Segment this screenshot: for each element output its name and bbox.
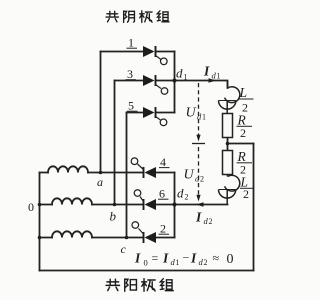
svg-text:I: I bbox=[195, 210, 202, 225]
inductor L/2 bottom bbox=[219, 175, 240, 205]
svg-text:I: I bbox=[162, 251, 169, 266]
transformer winding a bbox=[48, 166, 88, 172]
wire: thyristor 2 row bbox=[156, 237, 175, 239]
svg-text:c: c bbox=[121, 242, 127, 256]
共 bbox=[106, 11, 118, 22]
label R/2 bottom bbox=[237, 149, 253, 177]
wire: connector phase b to thyristor 3 bbox=[114, 81, 116, 205]
svg-text:4: 4 bbox=[160, 155, 166, 169]
svg-text:1: 1 bbox=[217, 72, 221, 81]
svg-text:1: 1 bbox=[176, 258, 180, 267]
node d1 bbox=[172, 78, 176, 82]
svg-text:a: a bbox=[97, 175, 103, 189]
voltage reference dashed line Ud2 bbox=[198, 147, 200, 195]
transformer winding b bbox=[52, 198, 92, 204]
node: load midpoint bbox=[226, 142, 230, 146]
svg-text:=: = bbox=[152, 251, 159, 265]
svg-text:6: 6 bbox=[159, 187, 165, 201]
label 共阳极组 (bottom) bbox=[106, 279, 173, 292]
label 5 bbox=[127, 99, 138, 113]
label 3 bbox=[126, 67, 137, 81]
组 bbox=[157, 11, 169, 22]
wire: d2 to load bbox=[175, 204, 228, 206]
wire: common-cathode bus d1 bbox=[174, 52, 176, 113]
thyristor 2 bbox=[132, 222, 156, 243]
resistor R/2 bottom bbox=[223, 151, 233, 175]
阳 bbox=[125, 279, 137, 291]
label 共阴极组 (top) bbox=[106, 11, 169, 23]
node c bbox=[125, 236, 129, 240]
svg-text:2: 2 bbox=[209, 217, 213, 226]
voltage reference dashed line Ud1 bbox=[198, 83, 200, 135]
svg-text:0: 0 bbox=[144, 258, 148, 268]
node d2 bbox=[172, 202, 176, 206]
wire: connector phase c to thyristor 5 bbox=[126, 113, 128, 238]
arrow: current Id1 bbox=[209, 78, 217, 83]
svg-text:2: 2 bbox=[160, 222, 166, 236]
wire: connector phase a to thyristor 1 bbox=[100, 52, 102, 173]
svg-text:b: b bbox=[110, 209, 117, 224]
svg-text:−: − bbox=[183, 251, 190, 265]
svg-text:2: 2 bbox=[185, 193, 189, 202]
svg-text:1: 1 bbox=[184, 73, 188, 82]
label R/2 top bbox=[237, 113, 253, 141]
inductor L/2 top bbox=[219, 81, 240, 114]
wire: between resistors bbox=[227, 138, 229, 151]
wire: thyristor 4 row bbox=[156, 172, 175, 174]
thyristor 5 bbox=[143, 107, 167, 126]
svg-text:2: 2 bbox=[200, 175, 204, 184]
midpoint tick bbox=[192, 143, 205, 145]
svg-text:d: d bbox=[177, 186, 184, 201]
label 4 bbox=[159, 155, 170, 169]
svg-text:0: 0 bbox=[28, 200, 34, 214]
thyristor 3 bbox=[143, 75, 168, 94]
wire: load midpoint to right bbox=[228, 143, 254, 145]
label Ud1 bbox=[186, 106, 207, 122]
label L/2 bottom bbox=[240, 175, 255, 202]
svg-text:≈: ≈ bbox=[213, 251, 220, 265]
label L/2 top bbox=[239, 85, 254, 115]
wire: thyristor 5 row bbox=[127, 112, 175, 114]
svg-text:3: 3 bbox=[127, 67, 133, 81]
wire: phase c horizontal bbox=[40, 237, 144, 239]
阴 bbox=[124, 11, 135, 22]
svg-text:2: 2 bbox=[204, 258, 208, 267]
svg-text:L: L bbox=[239, 85, 248, 100]
wire: right neutral vertical bbox=[253, 144, 255, 271]
wire: phase b horizontal bbox=[40, 204, 144, 206]
组 bbox=[160, 279, 173, 291]
node 0 (star point) bbox=[38, 203, 42, 207]
node: winding c on neutral bbox=[38, 236, 42, 240]
label 1 bbox=[127, 36, 138, 50]
label 2 bbox=[159, 222, 170, 236]
极 bbox=[142, 279, 155, 292]
wire: d1 to load bbox=[175, 81, 228, 89]
svg-text:U: U bbox=[184, 168, 195, 183]
svg-text:U: U bbox=[186, 106, 197, 121]
wire: phase a horizontal bbox=[40, 172, 144, 174]
arrow: current Id2 bbox=[196, 202, 204, 207]
label Id2 bbox=[195, 210, 213, 227]
svg-text:2: 2 bbox=[240, 126, 246, 140]
node b bbox=[113, 203, 117, 207]
label Ud2 bbox=[184, 168, 205, 184]
wire: thyristor 6 row bbox=[156, 204, 175, 206]
svg-text:5: 5 bbox=[128, 99, 134, 113]
svg-text:1: 1 bbox=[128, 36, 134, 50]
svg-text:1: 1 bbox=[202, 113, 206, 122]
svg-text:0: 0 bbox=[227, 252, 234, 267]
wire: bottom neutral horizontal bbox=[40, 270, 254, 272]
label d2 bbox=[177, 186, 189, 202]
label 6 bbox=[158, 187, 169, 201]
thyristor 1 bbox=[143, 46, 167, 65]
svg-text:2: 2 bbox=[243, 187, 249, 201]
共 bbox=[106, 279, 119, 290]
svg-text:d: d bbox=[176, 66, 183, 81]
极 bbox=[140, 11, 152, 23]
label d1 bbox=[176, 66, 188, 82]
wire: thyristor 3 row bbox=[115, 80, 175, 82]
thyristor 4 bbox=[131, 158, 156, 178]
svg-text:I: I bbox=[190, 251, 197, 266]
svg-text:I: I bbox=[134, 251, 141, 266]
svg-text:I: I bbox=[203, 64, 210, 79]
wire: neutral left vertical bbox=[39, 173, 41, 271]
node a bbox=[99, 171, 103, 175]
wire: common-anode bus d2 bbox=[174, 173, 176, 238]
resistor R/2 top bbox=[223, 114, 233, 138]
wire: thyristor 1 row bbox=[101, 51, 175, 53]
thyristor 6 bbox=[134, 190, 156, 210]
equation I0 = Id1 - Id2 ~ 0 bbox=[134, 251, 234, 268]
label Id1 bbox=[203, 64, 221, 81]
transformer winding c bbox=[52, 231, 92, 237]
